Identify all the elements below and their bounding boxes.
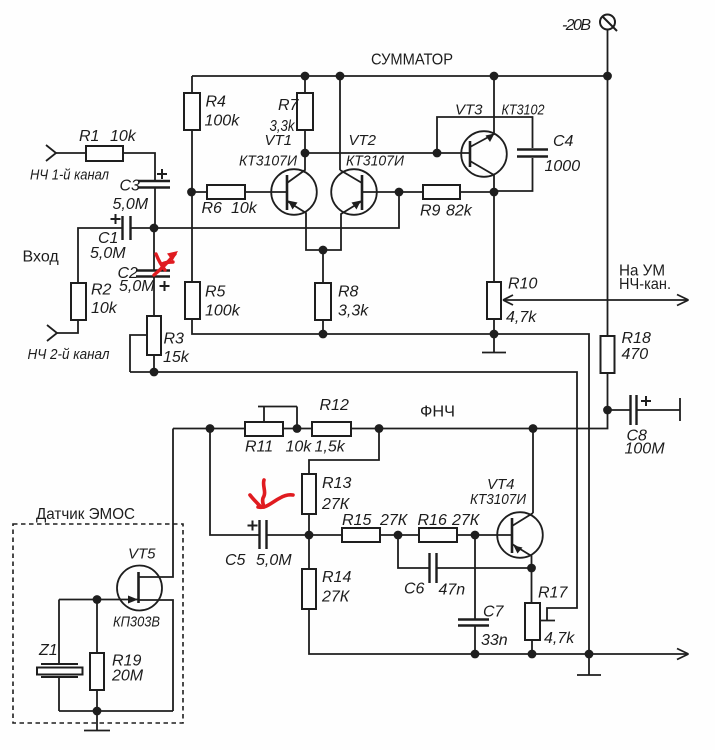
resistor R4 [184, 93, 200, 130]
svg-text:-20В: -20В [562, 17, 591, 34]
potentiometer R11 [245, 422, 283, 436]
wire C3 bottom to node [154, 188, 156, 228]
wire C1 right to node [131, 227, 154, 229]
resistor R12 [312, 422, 351, 436]
resistor R14 [302, 569, 316, 609]
wire ground stub bottom right [577, 654, 601, 675]
wire R3 tap hook [130, 335, 147, 372]
svg-text:5,0М: 5,0М [113, 196, 149, 213]
svg-text:ФНЧ: ФНЧ [420, 404, 455, 421]
svg-text:КТ3102: КТ3102 [502, 102, 546, 119]
svg-text:100k: 100k [205, 303, 241, 320]
power terminal -20V [600, 15, 617, 32]
wire -20V terminal stem [607, 30, 609, 76]
wire R17 bottom to rail [531, 640, 533, 654]
capacitor C3 [138, 181, 170, 188]
input chevron channel 2 [47, 325, 57, 341]
resistor R6 [207, 185, 245, 199]
svg-text:15k: 15k [163, 349, 190, 366]
svg-text:10k: 10k [231, 200, 258, 217]
resistor R9 [423, 185, 460, 199]
svg-text:C3: C3 [120, 178, 141, 195]
svg-text:Вход: Вход [23, 249, 60, 266]
svg-text:1000: 1000 [545, 158, 581, 175]
transistor VT4 [497, 512, 543, 568]
resistor R2 [71, 283, 86, 320]
svg-text:C7: C7 [483, 604, 505, 621]
wire VT4 emitter to R17 [531, 568, 533, 603]
wire R4-R5 vertical and ground rail y=334 down to bottom [192, 76, 589, 654]
plus sign C1 [111, 214, 121, 224]
output arrow bottom [677, 649, 689, 660]
capacitor C1 [123, 216, 131, 240]
svg-text:5,0М: 5,0М [119, 278, 155, 295]
svg-text:R11: R11 [245, 439, 273, 456]
wire datchik bottom rail [59, 710, 173, 712]
svg-text:27К: 27К [379, 512, 409, 529]
svg-text:R2: R2 [91, 282, 112, 299]
transistor VT5 JFET [117, 566, 162, 611]
svg-text:Z1: Z1 [38, 642, 58, 659]
trimmer R17 [525, 603, 540, 640]
wire R6 to VT1 base [192, 191, 287, 193]
wire -20V vertical through R18 to C8 node [607, 76, 609, 410]
svg-text:10k: 10k [110, 128, 137, 145]
svg-text:C4: C4 [553, 133, 574, 150]
wire datchik ground [84, 711, 110, 731]
sensor box dashed [13, 524, 183, 723]
svg-text:82k: 82k [446, 203, 473, 220]
wire C6 right to emitter node [437, 567, 532, 569]
svg-text:4,7k: 4,7k [506, 309, 537, 326]
wire R13 bottom to node [308, 514, 310, 535]
svg-text:100М: 100М [625, 441, 666, 458]
svg-text:VT2: VT2 [349, 132, 377, 149]
red pen mark near R13 [250, 480, 293, 507]
plus sign C8 [641, 396, 651, 406]
output arrow Na UM [503, 295, 689, 306]
svg-text:R3: R3 [164, 331, 185, 348]
svg-text:С5: С5 [225, 552, 246, 569]
svg-text:5,0М: 5,0М [90, 245, 126, 262]
svg-text:R15: R15 [342, 512, 371, 529]
svg-text:20М: 20М [111, 668, 144, 685]
wire R7 vertical [304, 76, 306, 153]
svg-text:R12: R12 [320, 397, 349, 414]
svg-text:Датчик ЭМОС: Датчик ЭМОС [36, 506, 135, 523]
input chevron channel 1 [46, 145, 56, 161]
wire R10 wiper output line [503, 299, 689, 301]
svg-text:НЧ-кан.: НЧ-кан. [619, 276, 671, 293]
plus sign C3 [157, 169, 167, 179]
wire node to C2 to R3 [153, 228, 155, 316]
resistor R1 [86, 146, 123, 161]
potentiometer R10 [487, 282, 501, 319]
svg-text:27К: 27К [321, 589, 351, 606]
wire C4 loop top [437, 117, 533, 153]
svg-text:47n: 47n [439, 582, 466, 599]
wire R2 bottom to input 2 [57, 320, 78, 333]
wire R11 wiper [258, 407, 297, 429]
wire rail y=372 to R17 tap [130, 372, 577, 621]
wire VT3 collector node to R10 [493, 192, 495, 282]
transistor VT3 [461, 76, 507, 192]
wire R12 right down to R13 [309, 429, 379, 475]
wire C8 node down and FNCH supply rail y=428 [173, 410, 608, 429]
transistor VT1 [271, 153, 323, 250]
svg-text:1,5k: 1,5k [315, 439, 346, 456]
svg-text:КП303В: КП303В [113, 614, 160, 631]
svg-text:R16: R16 [418, 512, 447, 529]
svg-text:R6: R6 [202, 200, 223, 217]
resistor R13 [302, 474, 316, 514]
wire R3 bottom to rail y=372 [153, 355, 155, 372]
wire VT2 base to R9 and feedback to C1 node [154, 192, 423, 228]
svg-text:R4: R4 [206, 94, 227, 111]
svg-text:КТ3107И: КТ3107И [470, 491, 526, 508]
resistor R7 [297, 93, 313, 130]
svg-text:3,3k: 3,3k [338, 303, 369, 320]
wire C8 right to terminal [637, 398, 680, 421]
svg-text:R18: R18 [622, 330, 651, 347]
svg-text:R14: R14 [322, 569, 351, 586]
capacitor C5 [260, 520, 267, 549]
svg-text:VT3: VT3 [455, 102, 483, 119]
capacitor C7 [458, 620, 489, 626]
resistor R3 [147, 316, 161, 355]
wire C5 left leg [210, 429, 259, 536]
svg-text:НЧ 2-й канал: НЧ 2-й канал [28, 346, 110, 363]
wire top -20V rail [192, 75, 608, 77]
wire R19 vertical [96, 600, 98, 712]
wire C1 left to R2 top [78, 228, 122, 283]
svg-text:C6: C6 [404, 581, 425, 598]
wire common emitters to R8 and rail [322, 250, 324, 334]
resistor R19 [90, 653, 104, 690]
svg-text:R9: R9 [420, 203, 441, 220]
svg-text:R5: R5 [205, 284, 226, 301]
svg-text:R7: R7 [278, 97, 300, 114]
wire Z1 left leg [58, 600, 60, 712]
svg-text:НЧ 1-й канал: НЧ 1-й канал [30, 167, 109, 184]
svg-text:VT1: VT1 [265, 132, 293, 149]
capacitor C2 [136, 271, 170, 277]
wire R10 bottom to ground rail [493, 319, 495, 334]
svg-text:R13: R13 [322, 475, 351, 492]
wire input 1 to R1 to C3 [56, 153, 155, 181]
svg-text:4,7k: 4,7k [544, 630, 575, 647]
svg-text:27К: 27К [451, 512, 481, 529]
wire VT5 source to datchik bottom rail [139, 600, 173, 711]
svg-text:R1: R1 [79, 128, 99, 145]
wire VT4 collector to rail [532, 429, 534, 514]
wire VT2 collector to rail [339, 76, 341, 170]
resistor R16 [419, 528, 457, 542]
resistor R15 [342, 528, 380, 542]
svg-text:КТ3107И: КТ3107И [239, 153, 297, 170]
svg-text:КТ3107И: КТ3107И [346, 153, 404, 170]
svg-text:27К: 27К [321, 496, 351, 513]
svg-text:5,0М: 5,0М [256, 552, 292, 569]
wire ground stub below R10 [482, 334, 506, 353]
piezo sensor Z1 [37, 664, 83, 677]
svg-text:10k: 10k [286, 439, 313, 456]
svg-text:VT5: VT5 [128, 546, 156, 563]
wire C4 bottom to collector node [494, 158, 533, 191]
wire node row C5 to VT4 base [267, 534, 512, 536]
wire C6 bridge left [398, 535, 429, 568]
wire VT5 gate line [59, 599, 138, 601]
svg-text:470: 470 [622, 346, 649, 363]
svg-text:R17: R17 [538, 585, 568, 602]
svg-text:100k: 100k [205, 113, 241, 130]
wire C8 left stub [608, 409, 631, 411]
wire R9 right to VT3 collector node [460, 191, 494, 193]
capacitor C4 [517, 150, 548, 157]
resistor R5 [185, 282, 200, 319]
svg-text:10k: 10k [91, 300, 118, 317]
svg-text:33n: 33n [481, 632, 508, 649]
plus sign C5 [248, 521, 258, 531]
resistor R18 [601, 336, 615, 373]
wire R14 and bottom output rail [309, 535, 689, 654]
plus sign C2 [160, 281, 170, 291]
resistor R8 [315, 283, 331, 320]
wire C7 vertical [474, 535, 476, 654]
transistor VT2 [323, 169, 399, 250]
capacitor C8 [631, 395, 637, 425]
svg-text:R10: R10 [508, 276, 537, 293]
capacitor C6 [430, 553, 437, 583]
wire VT1 collector node to VT3 base [305, 152, 470, 154]
red pen mark over C2 [154, 254, 175, 275]
svg-text:СУММАТОР: СУММАТОР [371, 52, 453, 69]
wire VT5 drain up to FNCH rail [139, 429, 173, 578]
svg-text:R8: R8 [338, 284, 359, 301]
